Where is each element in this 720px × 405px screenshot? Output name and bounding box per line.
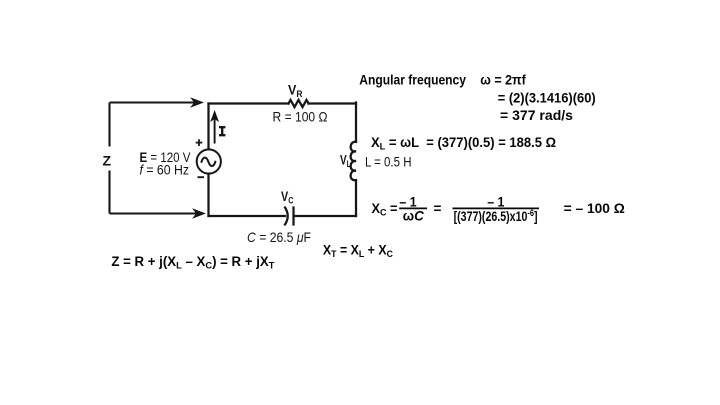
wire bottom-right segment xyxy=(294,215,356,217)
svg-text:Angular frequency: Angular frequency xyxy=(359,72,466,87)
svg-text:– 1: – 1 xyxy=(399,195,417,210)
capacitor C right plate xyxy=(292,208,294,225)
impedance Z bracket vertical upper xyxy=(108,103,110,147)
svg-text:R = 100 Ω: R = 100 Ω xyxy=(273,108,328,124)
Z arrow top xyxy=(110,98,203,106)
svg-text:C = 26.5 μF: C = 26.5 μF xyxy=(247,229,311,245)
svg-text:– 1: – 1 xyxy=(487,195,505,210)
svg-text:= – 100 Ω: = – 100 Ω xyxy=(564,201,625,216)
svg-text:ω = 2πf: ω = 2πf xyxy=(480,72,526,87)
label I xyxy=(219,127,225,135)
svg-text:= (2)(3.1416)(60): = (2)(3.1416)(60) xyxy=(498,91,596,106)
AC source sine wave xyxy=(202,158,216,166)
svg-text:VR: VR xyxy=(288,82,303,101)
AC source circle xyxy=(197,149,221,173)
fraction 2 bar xyxy=(453,207,540,209)
svg-text:XT = XL + XC: XT = XL + XC xyxy=(323,243,393,261)
current arrow I xyxy=(211,112,218,144)
svg-text:XC =: XC = xyxy=(372,201,398,219)
svg-text:f = 60 Hz: f = 60 Hz xyxy=(140,161,190,177)
svg-text:Z: Z xyxy=(103,153,112,169)
wire top-left segment xyxy=(209,102,289,104)
svg-text:=: = xyxy=(434,201,442,216)
resistor R xyxy=(289,100,309,107)
svg-text:L = 0.5 H: L = 0.5 H xyxy=(365,154,412,170)
impedance Z bracket vertical lower xyxy=(108,171,110,214)
minus sign of source xyxy=(198,176,205,178)
fraction 1 bar xyxy=(399,207,427,209)
Z arrow bottom xyxy=(110,209,205,217)
wire right upper segment xyxy=(355,103,357,142)
svg-text:ωC: ωC xyxy=(403,209,424,224)
svg-text:VL: VL xyxy=(340,152,351,171)
plus sign of source xyxy=(196,139,203,146)
wire top-right segment xyxy=(309,102,357,104)
svg-text:[(377)(26.5)x10-6]: [(377)(26.5)x10-6] xyxy=(454,208,538,224)
capacitor C left curved plate xyxy=(285,208,288,225)
inductor L xyxy=(351,142,356,181)
svg-text:Z = R + j(XL – XC) = R + jXT: Z = R + j(XL – XC) = R + jXT xyxy=(111,254,274,272)
wire left upper segment xyxy=(207,104,209,150)
svg-text:= 377 rad/s: = 377 rad/s xyxy=(500,108,573,123)
svg-text:VC: VC xyxy=(281,188,294,207)
svg-text:XL = ωL = (377)(0.5) = 188.5: XL = ωL = (377)(0.5) = 188.5 Ω xyxy=(371,135,556,153)
wire left lower segment xyxy=(207,174,209,216)
wire bottom-left segment xyxy=(209,215,286,217)
wire right lower segment xyxy=(355,180,357,216)
